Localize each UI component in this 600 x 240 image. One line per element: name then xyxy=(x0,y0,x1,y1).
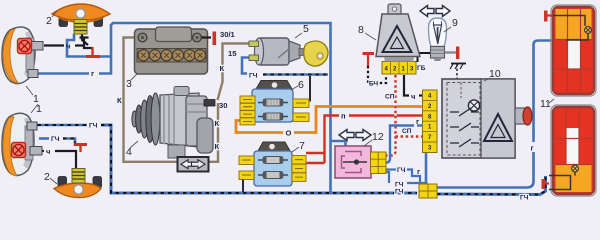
svg-text:ч: ч xyxy=(46,147,50,156)
svg-text:ГЧ: ГЧ xyxy=(249,73,258,80)
svg-text:30/1: 30/1 xyxy=(220,30,236,39)
wire: BCh striped from power tap to hazard term4 xyxy=(368,55,386,83)
ground: red ground symbol top-left xyxy=(86,47,100,57)
svg-text:ГЧ: ГЧ xyxy=(89,123,98,130)
svg-text:5: 5 xyxy=(303,23,309,35)
arrows: turn indicator arrows top xyxy=(420,6,450,17)
svg-text:г: г xyxy=(531,144,534,153)
power tap: red T tail top xyxy=(544,11,548,22)
terminal strip of switch10 xyxy=(423,90,438,153)
power tap: red T battery plus xyxy=(213,32,217,46)
svg-text:О: О xyxy=(286,129,292,138)
svg-text:г: г xyxy=(416,117,419,126)
lamp 2 side repeater top xyxy=(52,4,110,34)
svg-text:г: г xyxy=(417,167,420,176)
svg-text:ГЧ: ГЧ xyxy=(395,182,404,189)
tail lamp 11 bottom xyxy=(549,105,596,196)
ground: chassis symbol above switch10 xyxy=(450,64,466,80)
wire: GB black bulb9 to hazard term3 xyxy=(418,53,432,62)
wire: blue G trunk front turn signals xyxy=(38,23,346,192)
svg-text:7: 7 xyxy=(299,140,305,152)
svg-text:ч: ч xyxy=(411,92,415,101)
svg-text:К: К xyxy=(220,64,225,73)
wire: K brown net battery-generator-ignition xyxy=(124,38,251,162)
wire: red P net fuse7 to switch10 term8 xyxy=(306,116,423,164)
power tap: red T at bulb9 xyxy=(456,47,459,60)
arrows: turn indicator arrows near relay 12 xyxy=(339,130,371,141)
svg-text:К: К xyxy=(117,96,122,105)
svg-text:6: 6 xyxy=(298,79,304,91)
svg-text:30: 30 xyxy=(219,101,227,110)
wire: orange O fuse6 to switch10 term2 xyxy=(236,121,283,133)
svg-text:15: 15 xyxy=(228,49,237,58)
ground: red ground symbol bottom-left xyxy=(74,145,87,153)
arrows: generator direction box xyxy=(178,157,209,172)
fuse block 6 xyxy=(240,81,309,125)
wire: SP striped hazard term2 down to relay12 xyxy=(387,75,424,156)
svg-text:12: 12 xyxy=(372,131,384,143)
svg-text:ГЧ: ГЧ xyxy=(51,136,60,143)
turn switch unit 10 xyxy=(442,79,532,158)
wire: GCh dashed lamp1-bottom branch xyxy=(39,139,75,147)
connector: yellow 4-pin bottom xyxy=(419,184,437,198)
generator 4 xyxy=(132,87,215,159)
wire: black ch top-left to ground xyxy=(44,33,92,48)
svg-text:ч: ч xyxy=(66,42,70,51)
fuse block 7 xyxy=(239,142,306,186)
battery 3 xyxy=(135,27,208,74)
relay 12 xyxy=(335,146,386,178)
svg-text:К: К xyxy=(215,119,220,128)
svg-text:п: п xyxy=(341,112,346,121)
wire: dark drop to fuse6 right xyxy=(306,76,310,101)
wire: black ch bottom-left xyxy=(35,151,76,169)
wire: black ch hazard term1 to switch10 term4 xyxy=(404,75,409,96)
lamp 2 side repeater bottom xyxy=(54,169,102,198)
svg-text:ГЧ: ГЧ xyxy=(397,167,406,174)
lamp 1 front turn signal top xyxy=(2,27,43,84)
svg-text:2: 2 xyxy=(44,171,50,183)
svg-text:ГЧ: ГЧ xyxy=(395,189,404,196)
tail lamp 11 top xyxy=(551,5,596,96)
svg-text:10: 10 xyxy=(489,68,501,80)
wire: relay12 GCh stubs to bus xyxy=(386,170,426,184)
svg-text:ГЧ: ГЧ xyxy=(520,195,529,202)
ignition switch 5 xyxy=(255,38,329,66)
svg-text:4: 4 xyxy=(126,146,132,158)
hazard switch 8 xyxy=(376,4,420,74)
svg-text:ГБ: ГБ xyxy=(417,65,426,72)
wire: GCh dashed bus left lamps to bottom bus xyxy=(30,125,546,195)
lamp 1 front turn signal bottom xyxy=(2,113,42,176)
wire: blue g switch10 term3 to rear lamps xyxy=(426,41,566,188)
wire: battery plus lead xyxy=(202,36,212,38)
svg-text:2: 2 xyxy=(46,15,52,27)
svg-text:К: К xyxy=(215,142,220,151)
svg-text:г: г xyxy=(91,69,94,78)
svg-text:СП: СП xyxy=(402,128,412,135)
svg-text:СП: СП xyxy=(385,94,395,101)
svg-text:8: 8 xyxy=(358,24,364,36)
svg-text:БЧ: БЧ xyxy=(369,81,378,88)
wire: bulb9 pin to power tap xyxy=(445,51,456,53)
wire: fuse7 to bus drop xyxy=(242,180,244,193)
bulb 9 control lamp xyxy=(429,18,447,61)
svg-text:11: 11 xyxy=(540,98,551,110)
wire: GCh dashed from ignition 15 xyxy=(242,58,328,75)
power tap: red T tail bottom xyxy=(542,179,546,189)
svg-text:9: 9 xyxy=(452,17,458,29)
wire: blue g switch10 term1 to relay12 xyxy=(417,124,423,126)
power tap: red T symbol near hazard xyxy=(363,52,375,55)
